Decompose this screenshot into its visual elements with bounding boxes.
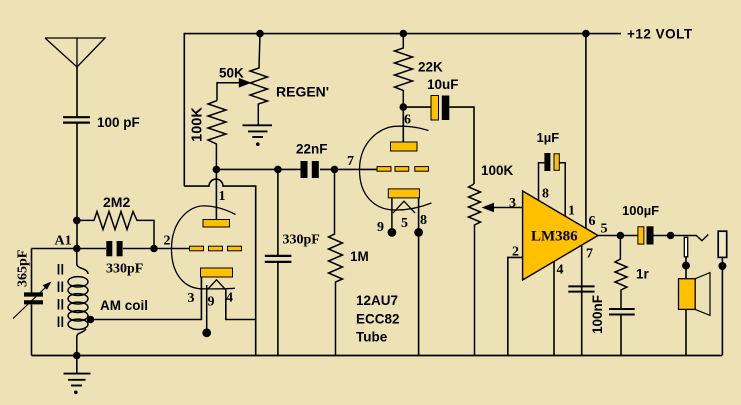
svg-text:3: 3	[188, 291, 195, 306]
pin 3 label LM386	[509, 196, 516, 211]
wiper arrow 100K	[482, 203, 523, 213]
svg-text:10uF: 10uF	[427, 77, 459, 92]
svg-text:+12 VOLT: +12 VOLT	[627, 27, 693, 42]
pin 2 wire LM386	[508, 257, 523, 355]
ground symbol REGEN	[243, 125, 273, 146]
tube V1 grid dashes	[190, 246, 242, 251]
label 100nF vertical	[590, 295, 605, 334]
bottom ground bus wire	[32, 355, 723, 357]
wire row A	[216, 168, 377, 170]
capacitor 10uF	[403, 96, 474, 185]
node junction 2M2 top	[73, 217, 81, 225]
svg-text:1: 1	[219, 189, 226, 204]
pin 8 label LM386	[542, 187, 549, 202]
capacitor 100uF	[620, 226, 670, 244]
wire jack to speaker	[685, 257, 687, 279]
pin 9 label tube V1	[208, 295, 215, 310]
svg-text:100K: 100K	[190, 107, 206, 142]
feedback wire with hop	[184, 179, 255, 355]
label 100pF	[97, 115, 140, 130]
svg-text:6: 6	[404, 113, 411, 128]
op-amp LM386	[523, 191, 598, 280]
pin 4 heater wire tube V1	[226, 290, 256, 320]
svg-text:7: 7	[586, 247, 593, 262]
+12V top rail wire	[184, 34, 621, 187]
pin 4 wire LM386	[553, 262, 555, 356]
svg-text:9: 9	[377, 220, 384, 235]
coil tap node	[87, 316, 95, 324]
svg-text:7: 7	[347, 154, 354, 169]
pin 2 label LM386	[512, 245, 519, 260]
pin 7 wire LM386 with capacitor	[568, 246, 594, 356]
pin 1 label LM386	[568, 204, 575, 219]
jack terminal left node	[682, 262, 690, 270]
label A1	[55, 234, 72, 249]
svg-text:2M2: 2M2	[103, 194, 130, 210]
svg-text:5: 5	[601, 222, 608, 237]
potentiometer 100K volume	[469, 184, 481, 356]
pin 9 label tube V2	[377, 220, 384, 235]
ground node dot	[73, 352, 81, 360]
svg-text:330pF: 330pF	[283, 233, 320, 248]
svg-text:50K: 50K	[219, 66, 244, 81]
resistor 100K grid leak	[208, 101, 226, 170]
jack switch contact	[671, 235, 709, 241]
svg-text:2: 2	[512, 245, 519, 260]
svg-text:22nF: 22nF	[296, 142, 328, 157]
pin 4 label LM386	[557, 263, 564, 278]
pin 2 label tube V1	[164, 234, 171, 249]
svg-text:100nF: 100nF	[590, 295, 605, 334]
svg-text:1M: 1M	[350, 249, 369, 264]
capacitor 330pF plate branch	[265, 169, 292, 355]
antenna	[45, 38, 105, 117]
wire antenna to A1	[76, 123, 78, 249]
tube V2 plate wire	[402, 107, 404, 142]
node 50K top	[256, 30, 264, 38]
svg-text:100K: 100K	[481, 163, 514, 178]
svg-text:1: 1	[568, 204, 575, 219]
pin 5 output wire LM386	[598, 235, 620, 237]
pin 8 label tube V2	[420, 213, 427, 228]
pin 9 filament wire tube V2	[388, 198, 397, 237]
pin 5 label tube V2	[401, 216, 408, 231]
node pin 6 junction	[400, 103, 408, 111]
pin 1 label tube V1	[219, 189, 226, 204]
label AM coil	[100, 298, 148, 313]
resistor 22K	[395, 34, 413, 108]
tube V2 plate	[391, 142, 418, 151]
svg-text:LM386: LM386	[531, 229, 578, 245]
jack terminal right node	[718, 262, 726, 270]
wiper arrow 50K	[217, 78, 252, 101]
wire coil tap to cathode pin 3	[91, 277, 202, 320]
label 1r	[636, 267, 650, 282]
pin 3 label tube V1	[188, 291, 195, 306]
label 365pF	[16, 250, 31, 287]
coil core dashed lines	[59, 264, 63, 330]
svg-text:8: 8	[542, 187, 549, 202]
pin 6 label tube V2	[404, 113, 411, 128]
pin 7 label LM386	[586, 247, 593, 262]
tube V1 plate wire pin 1	[215, 169, 217, 219]
label 22K	[418, 60, 443, 75]
label 330pF plate branch	[283, 233, 320, 248]
svg-text:100 pF: 100 pF	[97, 115, 140, 130]
label LM386	[531, 229, 578, 245]
tube V1 envelope	[172, 206, 236, 289]
label REGEN'	[276, 84, 329, 100]
label 10uF	[427, 77, 459, 92]
svg-text:8: 8	[420, 213, 427, 228]
node 22K top	[400, 30, 408, 38]
pin 8 wire LM386	[539, 163, 545, 201]
node 330pF branch top	[274, 166, 282, 174]
inductor AM coil	[68, 249, 88, 356]
svg-text:12AU7: 12AU7	[356, 293, 398, 308]
label 1M	[350, 249, 369, 264]
label 12AU7	[356, 293, 398, 308]
label ECC82	[356, 312, 400, 327]
svg-text:3: 3	[509, 196, 516, 211]
tube V1 cathode	[201, 268, 233, 290]
pin 6 wire LM386 to rail	[582, 30, 590, 229]
label Tube	[356, 330, 388, 345]
label 22nF	[296, 142, 328, 157]
pin 4 label tube V1	[226, 291, 233, 306]
svg-text:6: 6	[589, 214, 596, 229]
svg-text:Tube: Tube	[356, 330, 388, 345]
svg-text:22K: 22K	[418, 60, 443, 75]
variable capacitor 365pF	[24, 295, 43, 303]
label 330pF at A1	[106, 262, 143, 277]
svg-text:4: 4	[557, 263, 564, 278]
svg-text:365pF: 365pF	[16, 250, 31, 287]
label 100K vertical	[190, 107, 206, 142]
label +12 VOLT	[627, 27, 693, 42]
svg-text:100µF: 100µF	[622, 203, 659, 218]
wire A1 row	[32, 248, 190, 250]
capacitor 330pF at A1	[106, 241, 122, 256]
speaker	[679, 273, 711, 356]
node A1	[73, 245, 81, 253]
svg-text:A1: A1	[55, 234, 72, 249]
svg-text:330pF: 330pF	[106, 262, 143, 277]
tube V2 cathode	[388, 189, 419, 213]
svg-text:1µF: 1µF	[537, 130, 560, 145]
arrow of variable capacitor	[13, 282, 52, 319]
capacitor 22nF	[301, 161, 319, 178]
tube V1 plate	[203, 220, 230, 228]
node pin2 junction	[150, 245, 158, 253]
pin 8 cathode wire tube V2	[414, 198, 423, 356]
label 1uF	[537, 130, 560, 145]
label 100K volume	[481, 163, 514, 178]
svg-text:5: 5	[401, 216, 408, 231]
svg-text:2: 2	[164, 234, 171, 249]
svg-text:9: 9	[208, 295, 215, 310]
tube V2 grid dashes	[377, 167, 429, 172]
wire right jack to ground bus	[721, 257, 723, 355]
resistor 1M	[329, 169, 343, 355]
node 100K bottom	[213, 166, 221, 174]
svg-text:1r: 1r	[636, 267, 650, 282]
resistor 1r	[615, 236, 627, 309]
svg-text:ECC82: ECC82	[356, 312, 400, 327]
jack terminal left	[684, 237, 687, 256]
output node	[617, 232, 625, 240]
output jack node	[667, 232, 675, 240]
potentiometer 50K	[250, 34, 268, 125]
pin 7 label tube V2	[347, 154, 354, 169]
wire left edge down	[31, 249, 33, 356]
capacitor 1uF	[544, 153, 559, 171]
svg-text:REGEN': REGEN'	[276, 84, 329, 100]
label 100uF	[622, 203, 659, 218]
jack terminal right	[718, 231, 727, 257]
tube V2 envelope	[360, 126, 432, 210]
pin 5 label LM386	[601, 222, 608, 237]
svg-text:AM coil: AM coil	[100, 298, 148, 313]
svg-text:4: 4	[226, 291, 233, 306]
resistor 2M2	[77, 212, 154, 249]
ground symbol main	[64, 356, 91, 395]
label 2M2	[103, 194, 130, 210]
pin 6 label LM386	[589, 214, 596, 229]
label 50K	[219, 66, 244, 81]
pin 1 wire LM386	[559, 163, 565, 217]
node 1M top	[331, 166, 339, 174]
capacitor 100nF	[609, 309, 635, 356]
capacitor 100pF	[63, 117, 90, 122]
pin 9 filament wire tube V1	[202, 285, 211, 337]
